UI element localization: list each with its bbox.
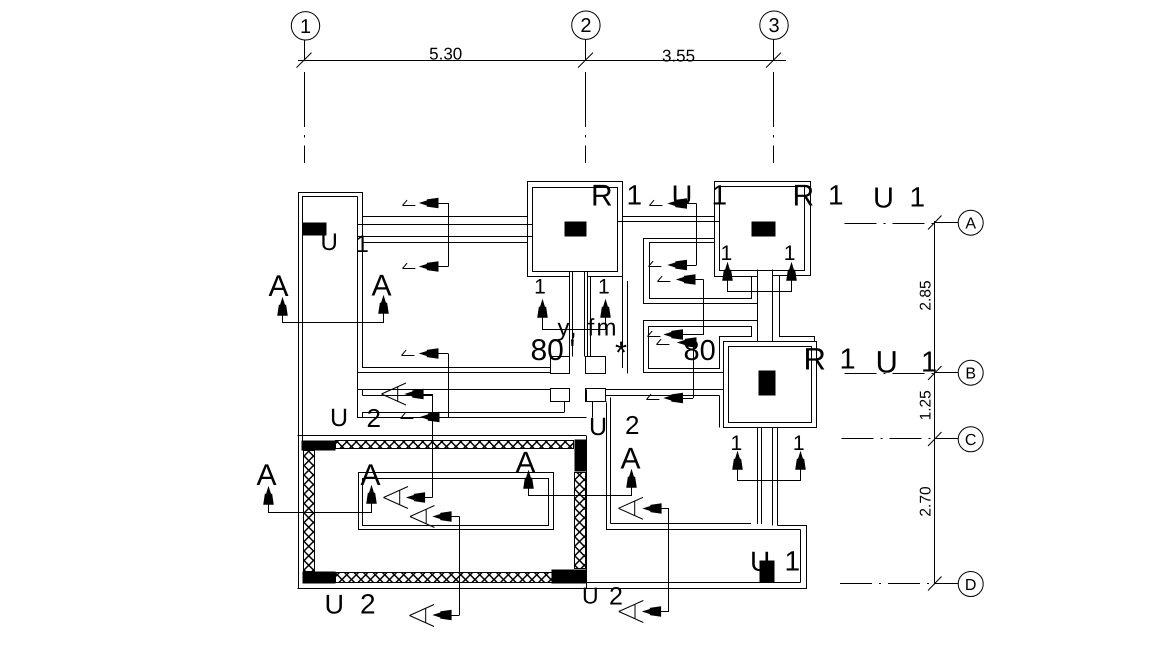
band bottom inner line [552, 582, 801, 584]
tick at grid 2 [578, 53, 593, 68]
grid D dash-dot axis [840, 583, 935, 585]
corridor bottom line left [358, 389, 551, 391]
column U1 in band (black) [760, 561, 774, 582]
svg-text:U: U [672, 181, 693, 213]
U2 strip outer bottom [358, 417, 587, 419]
grid bubble B [935, 360, 984, 385]
column in footing2 (black) [752, 222, 775, 236]
tick at grid B [928, 366, 942, 380]
svg-text:A: A [516, 447, 536, 480]
svg-text:U: U [321, 229, 338, 256]
svg-text:y, fm: y, fm [558, 315, 619, 342]
svg-text:C: C [965, 432, 977, 449]
pilaster bottom-right of cross [586, 389, 606, 402]
footing R1 top-right inner [720, 187, 805, 271]
hatch band right [575, 473, 586, 569]
room right-bottom top edge [606, 395, 720, 397]
label 1 rotated at U1 arrow [650, 200, 663, 205]
room1 arrow a2 [678, 275, 696, 284]
rotated A marker1 in hatched room [384, 487, 433, 509]
jog below 80 room a [586, 390, 588, 403]
label 1 rotated at a1 [649, 261, 662, 266]
pier right outer edge [362, 192, 364, 368]
wall strip below footing3 line c [772, 427, 774, 526]
rotated A marker2 in hatched room [410, 506, 460, 528]
svg-text:1.25: 1.25 [918, 390, 935, 420]
U2 strip inner bottom [362, 412, 564, 414]
svg-text:U: U [876, 345, 898, 380]
grid bubble 3 [760, 11, 788, 60]
wall beam outer bottom [363, 242, 528, 244]
svg-text:80: 80 [684, 335, 716, 367]
svg-text:2.70: 2.70 [918, 486, 935, 517]
svg-text:3.55: 3.55 [662, 47, 695, 66]
svg-text:1: 1 [793, 432, 805, 455]
vertical wall segment x627 [627, 281, 629, 374]
column in footing1 (black) [565, 222, 586, 236]
svg-text:5.30: 5.30 [429, 44, 462, 63]
hatch band left [304, 451, 315, 572]
inner wall line left of footing3 [719, 396, 721, 428]
pilaster top-right of cross [586, 357, 606, 374]
room2 outer outline (L-shape, notched by footing3) [644, 321, 758, 373]
room1 inner outline [650, 243, 752, 299]
svg-text:2: 2 [360, 589, 376, 620]
plan bottom outer line [298, 588, 808, 590]
wall beam inner bottom [358, 236, 533, 238]
svg-text:3: 3 [768, 15, 779, 37]
corner block bottom-right (black) [552, 570, 586, 583]
band top line right part [778, 525, 808, 527]
grid bubble C [935, 427, 984, 452]
svg-text:R: R [804, 342, 826, 377]
label 1 rotated at a5 [647, 394, 660, 399]
wall strip below footing3 line d [777, 427, 779, 526]
wall footing2-to-footing3 right edge [772, 270, 774, 342]
svg-text:U: U [582, 583, 599, 609]
label 1 rotated at S1 [403, 200, 416, 205]
svg-text:1: 1 [840, 344, 856, 376]
wall strip below footing1 line c [584, 271, 586, 357]
wall strip below footing3 line a [757, 427, 759, 524]
svg-text:*: * [615, 335, 627, 370]
arrow S4 [422, 412, 440, 421]
center wall to band outer [606, 403, 608, 530]
corner block top-right (black) [575, 440, 586, 471]
wall beam footing1-to-footing2 top [622, 216, 715, 218]
section 1-1 pair below footing1 [538, 301, 610, 318]
hatched room outer right line [586, 436, 588, 589]
svg-text:A: A [269, 270, 289, 303]
band right inner edge [800, 530, 802, 583]
footing R1 middle-right outer [724, 342, 817, 428]
label 1 rotated at S3 [402, 350, 415, 355]
column in pier (black) [303, 223, 326, 235]
room2 inner outline [649, 327, 752, 369]
section A-A top pair arrows [278, 297, 388, 316]
corridor top line [358, 372, 551, 374]
corner block bottom-left (black) [303, 572, 335, 583]
svg-text:2.85: 2.85 [918, 280, 935, 310]
svg-text:U: U [750, 546, 770, 577]
section A-A bottom-right pair [524, 471, 636, 489]
footing R1 top-left inner [533, 188, 618, 272]
arrow S1 [421, 198, 439, 207]
section 1-1 pair below footing2 [723, 264, 796, 281]
rotated A marker bottom outside [410, 605, 460, 627]
svg-text:1: 1 [627, 180, 643, 211]
rotated A marker bottom-right outside [619, 601, 669, 623]
svg-text:A: A [965, 216, 976, 233]
tick at grid A [928, 216, 942, 230]
grid bubble 2 [572, 11, 600, 60]
band top line left part [611, 523, 752, 525]
wall strip below footing3 line b [761, 427, 763, 524]
svg-text:A: A [361, 459, 381, 492]
svg-text:1: 1 [720, 242, 732, 265]
top dimension line [298, 60, 786, 62]
label 1 rotated at S4 [401, 413, 414, 418]
outer boundary jog right of wall [780, 276, 815, 342]
grid 2 dash-dot axis [585, 72, 587, 163]
label 1 rotated at S2 [403, 263, 416, 268]
wall strip below footing1 line d [587, 271, 589, 357]
pier U1 outer outline [299, 193, 363, 589]
svg-text:1: 1 [921, 347, 937, 379]
svg-text:A: A [372, 270, 392, 303]
svg-text:R: R [591, 180, 613, 213]
tick at grid D [928, 577, 942, 591]
grid bubble D [935, 572, 984, 597]
svg-text:1: 1 [910, 182, 926, 213]
svg-text:1: 1 [712, 180, 728, 211]
jog below 80 room b [593, 402, 607, 418]
band inner top line [606, 529, 801, 531]
svg-text:U: U [873, 183, 894, 215]
grid B dash-dot axis [845, 373, 935, 375]
section line 2 upper (U1 label arrow) [669, 199, 687, 208]
inner room inner rectangle [363, 479, 549, 526]
grid A dash-dot axis [845, 223, 935, 225]
corridor bottom line right [586, 389, 724, 391]
room2 arrow a4 [679, 338, 697, 347]
svg-text:2: 2 [625, 410, 639, 440]
hatch band top [336, 441, 574, 449]
arrow S2 [421, 262, 439, 271]
right dimension line [934, 221, 936, 585]
wall beam footing1-to-footing2 bottom [618, 221, 720, 223]
svg-text:1: 1 [598, 276, 610, 299]
room1 arrow a1 [669, 260, 687, 269]
grid bubble A [935, 210, 984, 235]
svg-text:1: 1 [534, 276, 546, 299]
center wall to band inner [610, 398, 612, 524]
wall beam inner top [358, 224, 533, 226]
wall footing2-to-footing3 left edge [757, 270, 759, 342]
label 1 rotated at a4 [657, 339, 670, 344]
footing R1 top-right outer [715, 182, 811, 277]
tick at grid 1 [297, 53, 312, 68]
hatched room outer top line [298, 435, 587, 437]
svg-text:U: U [325, 590, 345, 620]
svg-text:A: A [621, 443, 641, 476]
hatch band bottom [336, 573, 553, 583]
U2 strip inner top [363, 395, 434, 397]
grid bubble 1 [291, 12, 319, 60]
section A-A bottom-left pair [264, 487, 376, 505]
grid 3 dash-dot axis [773, 72, 775, 163]
section line 1 lower segment [448, 354, 450, 418]
room2 arrow a3 [665, 330, 683, 339]
pier lower outer segment a [362, 390, 364, 396]
tick at grid 3 [766, 53, 781, 68]
svg-text:A: A [257, 459, 277, 492]
corner block top-left (black) [302, 441, 335, 450]
svg-text:1: 1 [784, 242, 796, 265]
rotated A marker right room [619, 497, 670, 519]
vertical wall right of footing1 gap [622, 277, 624, 369]
svg-text:1: 1 [356, 231, 369, 258]
svg-text:1: 1 [300, 16, 311, 38]
pilaster bottom-left of cross [551, 389, 570, 402]
room1 outer outline [644, 239, 758, 304]
pier U1 inner line [303, 197, 358, 441]
big room bottom inner line [363, 367, 551, 369]
svg-text:2: 2 [609, 583, 623, 611]
svg-text:U: U [330, 404, 348, 432]
wall strip below footing1 line a [569, 271, 571, 357]
svg-text:1: 1 [828, 180, 844, 211]
footing R1 top-left outer [528, 182, 623, 277]
column in footing3 (black) [759, 371, 775, 395]
svg-text:U: U [589, 413, 607, 441]
svg-text:1: 1 [785, 546, 801, 577]
svg-text:B: B [965, 366, 976, 383]
svg-text:1: 1 [730, 432, 742, 455]
tick at grid C [928, 432, 942, 446]
svg-text:R: R [793, 180, 815, 213]
svg-text:2: 2 [580, 15, 591, 37]
footing R1 middle-right inner [729, 347, 812, 423]
grid C dash-dot axis [842, 438, 935, 440]
wall beam pier-to-footing1 outer top [363, 216, 528, 218]
section line 1 upper segment [448, 203, 450, 267]
rotated A marker in U2 strip [382, 383, 433, 405]
pier right inner edge [357, 197, 359, 419]
arrow a5 below room2 [665, 393, 683, 402]
pilaster top-left of cross [551, 357, 570, 374]
strip end vertical left [564, 402, 566, 413]
pier lower outer segment b [362, 413, 364, 419]
inner room outer rectangle [359, 473, 554, 530]
svg-text:D: D [965, 577, 977, 594]
right edge below footing1 [590, 277, 592, 357]
arrow S3 [421, 349, 439, 358]
svg-text:2: 2 [367, 403, 381, 433]
label 1 rotated at a2 [658, 276, 671, 281]
wall strip below footing1 line b [572, 271, 574, 357]
grid 1 dash-dot axis [304, 72, 306, 163]
section 1-1 pair below footing3 [733, 453, 805, 470]
band right outer edge [806, 526, 808, 589]
label 1 rotated at a3 [648, 331, 661, 336]
